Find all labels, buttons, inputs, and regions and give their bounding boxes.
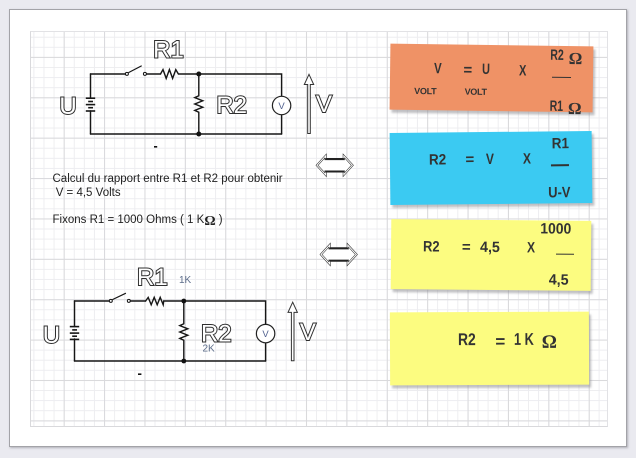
voltmeter V (bottom circuit) bbox=[256, 324, 274, 342]
minus polarity mark (top circuit) bbox=[154, 146, 157, 148]
wire junction to voltmeter branch bbox=[199, 74, 282, 96]
wire bottom circuit bottom rail bbox=[75, 360, 266, 362]
switch S1 (bottom circuit) bbox=[109, 293, 130, 302]
svg-text:V: V bbox=[262, 329, 269, 340]
fraction line bbox=[550, 165, 569, 167]
svg-text:R1: R1 bbox=[153, 37, 184, 64]
wire switch to R1 bbox=[147, 73, 161, 75]
fraction line bbox=[552, 76, 571, 78]
svg-text:R2: R2 bbox=[216, 92, 247, 119]
resistor R1 (top circuit) bbox=[161, 70, 197, 79]
wire top circuit top rail bbox=[91, 73, 126, 75]
wire junction to voltmeter branch (bottom) bbox=[184, 301, 266, 324]
node junction bottom circuit (bottom) bbox=[181, 359, 186, 364]
resistor R1 (bottom circuit) bbox=[146, 297, 182, 304]
battery U (bottom circuit) bbox=[70, 327, 79, 340]
wire top circuit bottom rail bbox=[91, 133, 282, 135]
node junction top circuit (bottom) bbox=[196, 132, 201, 137]
formula box yellow: R2 = 1 K ohm bbox=[390, 312, 589, 386]
wire switch to R1 (bottom) bbox=[131, 300, 146, 302]
wire top circuit lower-left vertical bbox=[90, 111, 92, 134]
node junction bottom circuit (top) bbox=[181, 299, 186, 304]
voltmeter V (top circuit) bbox=[272, 96, 290, 114]
svg-text:V: V bbox=[278, 101, 285, 112]
svg-text:U: U bbox=[59, 93, 76, 120]
formula box yellow: R2 = 4,5 x 1000/4,5 bbox=[391, 219, 592, 291]
wire bottom circuit left vertical bbox=[74, 301, 76, 326]
switch S1 (top circuit) bbox=[125, 66, 146, 76]
minus polarity mark (bottom circuit) bbox=[138, 373, 141, 375]
wire voltmeter to bottom rail (bottom) bbox=[265, 343, 267, 361]
formula box blue: R2 = V x R1/(U-V) bbox=[390, 131, 593, 205]
resistor R2 vertical branch (bottom circuit) bbox=[180, 303, 188, 359]
svg-text:U: U bbox=[43, 322, 60, 349]
svg-text:1K: 1K bbox=[179, 275, 192, 286]
formula box orange: V = U x R2/R1 bbox=[390, 43, 594, 111]
double arrow (between top circuit and orange box) bbox=[317, 156, 352, 175]
text paragraph bbox=[53, 173, 283, 228]
wire voltmeter to bottom rail bbox=[281, 115, 283, 134]
double arrow (between text and yellow box) bbox=[321, 245, 356, 264]
svg-text:2K: 2K bbox=[203, 344, 216, 355]
wire bottom circuit lower-left vertical bbox=[74, 339, 76, 361]
svg-text:V: V bbox=[300, 319, 316, 346]
resistor R2 vertical branch (top circuit) bbox=[195, 76, 203, 132]
svg-text:V: V bbox=[316, 91, 332, 118]
node junction top circuit (top) bbox=[196, 72, 201, 77]
wire top circuit left vertical bbox=[90, 74, 92, 98]
arrow V (bottom circuit, outlined vertical arrow) bbox=[288, 302, 297, 361]
arrow V (top circuit, outlined vertical arrow) bbox=[304, 74, 313, 133]
fraction line bbox=[556, 253, 575, 255]
svg-text:R1: R1 bbox=[137, 264, 168, 291]
wire bottom circuit top rail bbox=[75, 300, 110, 302]
battery U (top circuit) bbox=[86, 98, 95, 111]
